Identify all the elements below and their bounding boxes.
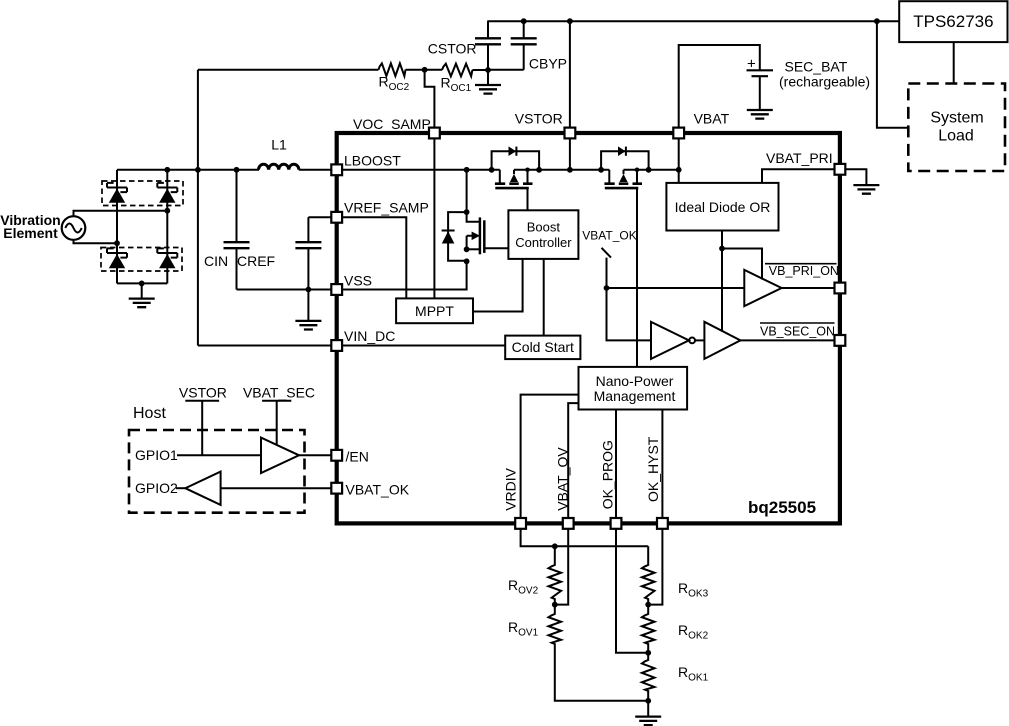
junction Q1 loop left: [489, 167, 495, 173]
svg-text:ROK2: ROK2: [678, 622, 709, 642]
wire bridge left column: [116, 170, 118, 284]
junction Q2 loop right: [646, 167, 652, 173]
wire VBAT_OV down: [555, 523, 568, 604]
resistor ROC1: [441, 64, 489, 94]
wire VRDIV divider top: [521, 523, 649, 546]
svg-text:Boost: Boost: [527, 220, 561, 235]
junction AC top to right column: [164, 208, 170, 214]
pin VB_PRI_ON: [835, 283, 846, 294]
buffer U5 VB_SEC_ON: [704, 322, 840, 359]
svg-text:Controller: Controller: [515, 235, 572, 250]
wire bridge bottom rail: [117, 282, 167, 284]
diode D1 bridge top-left: [107, 183, 127, 203]
wire OK_PROG down: [616, 523, 648, 652]
pin VBAT_PRI: [766, 150, 845, 175]
svg-text:MPPT: MPPT: [415, 303, 454, 319]
junction AC bottom to left column: [114, 240, 120, 246]
svg-text:VOC_SAMP: VOC_SAMP: [353, 116, 431, 132]
junction ROV2/ROV1: [552, 602, 558, 608]
ground (CREF node): [295, 290, 321, 330]
junction VSTOR to TPS: [874, 18, 880, 24]
svg-text:VSTOR: VSTOR: [515, 111, 563, 127]
svg-text:Element: Element: [3, 225, 58, 241]
resistor ROK2: [642, 605, 709, 653]
diode D3 bridge bottom-left: [107, 248, 127, 268]
svg-text:VBAT_OK: VBAT_OK: [346, 482, 410, 498]
switch VBAT_OK: [582, 229, 636, 289]
wire VBAT pin to rail and Ideal Diode OR: [678, 133, 680, 183]
wire VSTOR top rail: [487, 20, 899, 22]
wire AC top lead: [74, 211, 168, 217]
pin VBAT_OK: [331, 482, 409, 498]
junction ROK1 ground: [645, 698, 651, 704]
ground (bridge): [129, 283, 155, 307]
svg-text:VBAT_OK: VBAT_OK: [582, 229, 636, 243]
wire Boost Controller to Cold Start: [543, 259, 545, 336]
dashed box bottom diode pair: [101, 248, 182, 272]
pin VBAT_OV: [554, 447, 573, 529]
block Nano-Power Management: [579, 367, 688, 410]
wire OK_HYST down: [648, 523, 662, 604]
junction Q2 drain: [635, 168, 640, 173]
ground (CSTOR node): [475, 70, 501, 93]
wire L1 to LBOOST pin: [299, 169, 337, 171]
wire MPPT to Boost Controller: [473, 259, 523, 312]
capacitor CSTOR: [428, 21, 501, 70]
ground (SEC_BAT): [747, 76, 773, 118]
junction VBAT rail: [676, 167, 682, 173]
wire NPM to OK_PROG: [615, 410, 617, 524]
pin VOC_SAMP: [353, 116, 440, 138]
buffer VBAT_OK to GPIO2: [135, 472, 337, 505]
pin VBAT: [673, 111, 729, 139]
wire TPS62736 to System Load: [953, 42, 955, 83]
net label VB_PRI_ON: [765, 264, 839, 278]
capacitor CIN: [204, 170, 250, 290]
block System Load: [908, 84, 1005, 172]
junction VSTOR rail: [567, 18, 573, 24]
junction LBOOST coldstart branch: [464, 167, 470, 173]
buffer U3 VB_PRI_ON: [744, 270, 840, 306]
buffer GPIO1 to /EN: [135, 438, 337, 473]
junction VRDIV/ROV2: [552, 543, 558, 549]
svg-text:CREF: CREF: [237, 253, 275, 269]
battery SEC_BAT: [679, 45, 870, 128]
block MPPT: [396, 298, 473, 323]
net label VB_SEC_ON: [760, 323, 835, 339]
svg-text:Cold Start: Cold Start: [512, 339, 574, 355]
ground (divider): [635, 701, 661, 725]
wire VSS internal: [337, 261, 467, 289]
svg-text:ROK3: ROK3: [678, 580, 709, 600]
wire NPM to OK_HYST: [661, 410, 663, 524]
svg-text:VBAT_OV: VBAT_OV: [554, 447, 570, 511]
transistor Q2 (VSTOR-VBAT PMOS): [601, 146, 649, 366]
wire VSTOR vertical: [569, 21, 571, 170]
junction ROK3/ROK2: [645, 602, 651, 608]
svg-text:VIN_DC: VIN_DC: [344, 328, 395, 344]
svg-text:GPIO1: GPIO1: [135, 447, 178, 463]
wire AC bottom lead: [74, 240, 118, 243]
wire VBAT_OK to inverter: [607, 288, 652, 340]
inverter U4: [651, 322, 704, 359]
block Host (dashed): [129, 405, 305, 513]
svg-text:LBOOST: LBOOST: [344, 153, 401, 169]
svg-text:/EN: /EN: [346, 449, 369, 465]
resistor ROK3: [642, 546, 709, 604]
svg-text:ROC1: ROC1: [441, 75, 472, 95]
IC bq25505 outline: [337, 133, 840, 523]
svg-text:VSTOR: VSTOR: [179, 385, 227, 401]
svg-text:Host: Host: [133, 405, 166, 422]
svg-text:VBAT_PRI: VBAT_PRI: [766, 150, 833, 166]
svg-text:OK_PROG: OK_PROG: [599, 440, 615, 509]
wire rail mid: [514, 169, 609, 171]
ac source Vibration Element: [0, 212, 85, 241]
svg-text:VREF_SAMP: VREF_SAMP: [344, 200, 429, 216]
wire LBOOST rail internal: [337, 169, 500, 171]
svg-text:VB_SEC_ON: VB_SEC_ON: [760, 325, 835, 339]
transistor Q1 (LBOOST-VSTOR PMOS): [492, 146, 540, 210]
pin LBOOST: [331, 153, 401, 176]
svg-text:SEC_BAT: SEC_BAT: [785, 59, 848, 75]
wire VREF_SAMP to MPPT: [337, 217, 407, 298]
wire ROC2 to ROC1: [406, 69, 443, 71]
svg-text:ROV1: ROV1: [508, 619, 539, 639]
wire Ideal Diode OR output down: [721, 231, 723, 331]
wire VIN_DC loop: [198, 70, 379, 346]
junction CBYP top: [521, 18, 527, 24]
pin OK_PROG: [599, 440, 621, 529]
svg-text:CIN: CIN: [204, 253, 228, 269]
inductor L1: [259, 137, 299, 170]
svg-text:VBAT: VBAT: [694, 111, 730, 127]
wire VBAT_PRI to ground: [840, 169, 867, 184]
pin /EN: [331, 449, 369, 465]
pin VSTOR: [515, 111, 576, 139]
svg-text:VBAT_SEC: VBAT_SEC: [243, 385, 315, 401]
junction ROC2/ROC1 node: [422, 67, 428, 73]
svg-text:GPIO2: GPIO2: [135, 480, 178, 496]
wire NPM to VBAT_OV: [568, 403, 578, 523]
wire VSS external: [237, 289, 337, 291]
resistor ROV2: [508, 546, 561, 604]
svg-text:OK_HYST: OK_HYST: [645, 436, 661, 502]
diode D4 bridge bottom-right: [157, 248, 177, 268]
junction Q1 drain: [525, 168, 530, 173]
svg-text:CSTOR: CSTOR: [428, 41, 477, 57]
pin VSS: [331, 273, 372, 295]
wire VIN_DC internal: [337, 345, 506, 347]
pin OK_HYST: [645, 436, 668, 529]
svg-text:Load: Load: [938, 128, 974, 145]
svg-text:L1: L1: [271, 137, 287, 153]
svg-text:+: +: [747, 56, 756, 73]
junction Q2 loop left: [598, 167, 604, 173]
wire Ideal Diode OR to VBAT_PRI: [762, 169, 840, 183]
svg-text:ROV2: ROV2: [508, 577, 539, 597]
wire VBAT_OK to VB_PRI buffer: [607, 287, 745, 289]
dashed box top diode pair: [102, 181, 183, 206]
block TPS62736: [899, 1, 1007, 42]
svg-text:TPS62736: TPS62736: [913, 12, 993, 31]
transistor Q3 cold-start NMOS with diode: [442, 170, 509, 264]
junction rail CIN: [234, 167, 240, 173]
svg-text:Nano-Power: Nano-Power: [596, 373, 674, 389]
block Ideal Diode OR: [666, 183, 778, 231]
junction Ideal Diode OR output: [719, 246, 725, 252]
wire LBOOST rail left: [117, 169, 259, 171]
junction rail VIN_DC branch: [195, 167, 201, 173]
junction ROK2/ROK1: [645, 650, 651, 656]
svg-text:Management: Management: [594, 388, 676, 404]
pin VRDIV: [503, 467, 527, 528]
block Cold Start: [505, 336, 580, 360]
capacitor CBYP: [489, 21, 567, 71]
resistor ROC2: [379, 63, 410, 93]
wire NPM to VRDIV: [521, 395, 579, 524]
host VBAT_SEC supply: [243, 385, 315, 445]
svg-text:bq25505: bq25505: [748, 498, 816, 517]
junction VSTOR rail: [567, 167, 573, 173]
junction VBAT_OK: [604, 285, 610, 291]
svg-text:VB_PRI_ON: VB_PRI_ON: [769, 264, 839, 278]
junction bridge ground: [139, 281, 145, 287]
resistor ROV1: [508, 605, 648, 701]
junction CREF/VSS: [306, 287, 312, 293]
wire VOC_SAMP to MPPT: [433, 133, 435, 298]
wire VSTOR to System Load: [877, 21, 908, 128]
ground (VBAT_PRI): [853, 185, 879, 194]
svg-text:CBYP: CBYP: [529, 56, 567, 72]
wire VOC_SAMP jog: [425, 70, 435, 133]
host VSTOR supply: [179, 385, 227, 456]
resistor ROK1: [642, 653, 709, 701]
junction Q1 loop right: [536, 167, 542, 173]
svg-text:Ideal Diode OR: Ideal Diode OR: [675, 199, 771, 215]
svg-text:VSS: VSS: [344, 273, 372, 289]
svg-text:ROK1: ROK1: [678, 664, 709, 684]
pin VREF_SAMP: [331, 200, 429, 223]
capacitor CREF: [237, 217, 332, 289]
junction CSTOR node: [485, 67, 491, 73]
pin VIN_DC: [331, 328, 395, 351]
junction rail bridge right column: [164, 167, 170, 173]
wire bridge right column: [166, 170, 168, 284]
block Boost Controller: [508, 210, 578, 259]
diode D2 bridge top-right: [157, 183, 177, 203]
svg-text:VRDIV: VRDIV: [503, 467, 519, 510]
wire to VB_PRI buffer top: [722, 249, 762, 280]
pin VB_SEC_ON: [835, 335, 846, 346]
wire rail right: [624, 169, 679, 171]
svg-text:System: System: [930, 110, 983, 127]
svg-text:(rechargeable): (rechargeable): [779, 74, 870, 90]
